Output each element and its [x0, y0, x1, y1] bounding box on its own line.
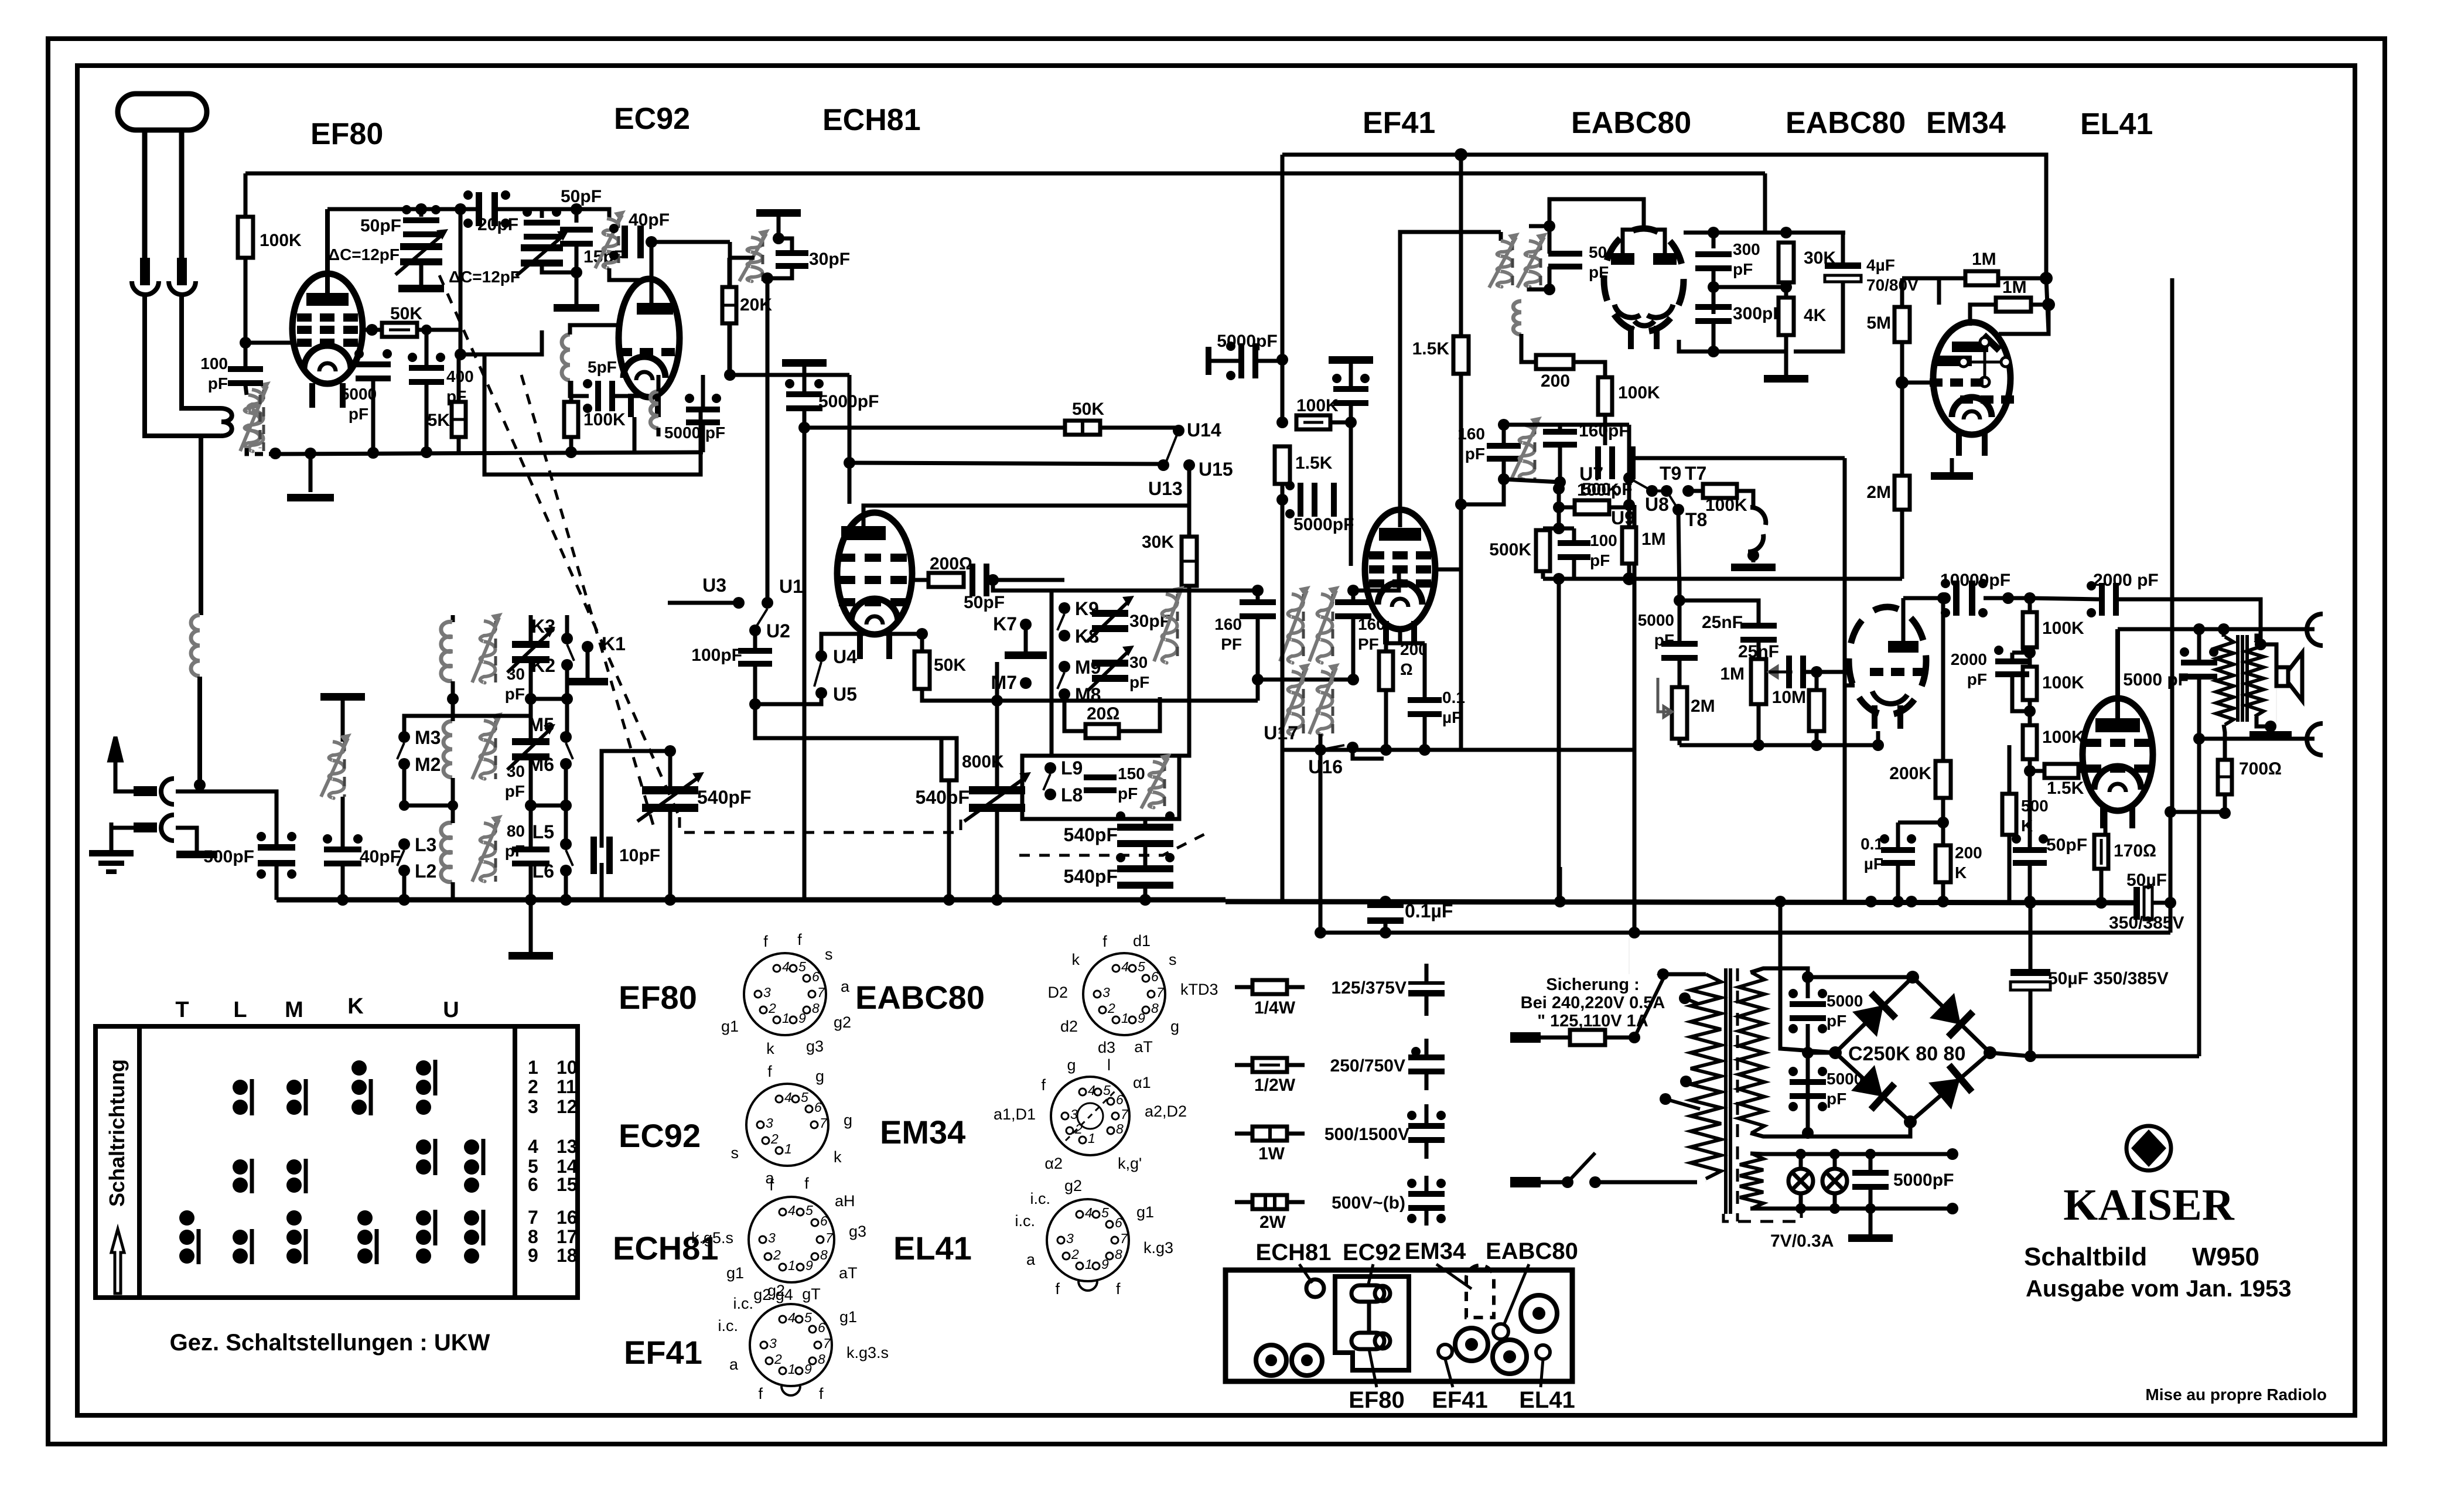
wire — [1595, 1180, 1697, 1185]
contacts U2 bot — [464, 1210, 483, 1264]
svg-text:500/1500V: 500/1500V — [1325, 1125, 1409, 1144]
junction — [1937, 817, 1949, 828]
svg-text:25nF: 25nF — [1738, 642, 1779, 661]
chassis pointer EF41 — [1445, 1359, 1453, 1387]
svg-text:100: 100 — [200, 354, 228, 373]
label 150pF — [1118, 764, 1145, 803]
svg-text:pF: pF — [1827, 1012, 1846, 1030]
svg-text:2000 pF: 2000 pF — [2093, 571, 2159, 590]
wire — [1256, 591, 1260, 600]
legend resistor 1/4W — [1252, 980, 1287, 994]
svg-text:aH: aH — [835, 1192, 855, 1210]
junction — [844, 457, 855, 469]
junction — [1419, 744, 1431, 756]
svg-text:EC92: EC92 — [619, 1117, 701, 1154]
wire ECH81 anode line — [863, 506, 1189, 527]
junction — [2255, 639, 2266, 650]
svg-text:U7: U7 — [1579, 463, 1603, 484]
wire — [1258, 359, 1282, 363]
svg-text:µF: µF — [1442, 708, 1462, 726]
svg-text:6: 6 — [820, 1213, 828, 1228]
wire 20pF node down to 50K out — [459, 209, 463, 354]
label 160pF c — [1457, 425, 1485, 463]
junction — [1829, 1046, 1842, 1059]
svg-text:EABC80: EABC80 — [1786, 106, 1906, 140]
contacts L mid — [233, 1159, 252, 1193]
label 200K b — [1955, 844, 1982, 882]
wire EF41 feed down — [1281, 155, 1285, 360]
svg-text:1: 1 — [1088, 1131, 1095, 1146]
grid EF41 g2 — [1369, 565, 1431, 574]
svg-text:3: 3 — [1102, 985, 1110, 1000]
capacitor terminal in — [1206, 347, 1211, 375]
wire — [1876, 731, 1880, 745]
svg-text:U16: U16 — [1308, 756, 1343, 777]
label 400pF — [446, 367, 474, 405]
diode bridge 4 — [1910, 1053, 1990, 1122]
junction — [773, 233, 784, 244]
svg-text:U4: U4 — [833, 646, 857, 667]
coil antenna secondary — [240, 381, 271, 451]
svg-text:Bei 240,220V 0.5A: Bei 240,220V 0.5A — [1521, 994, 1665, 1012]
wire AGC down to bus — [803, 428, 807, 900]
svg-text:ΔC=12pF: ΔC=12pF — [449, 268, 520, 286]
wire — [2008, 835, 2012, 902]
svg-text:f: f — [1041, 1076, 1046, 1094]
svg-text:5000 pF: 5000 pF — [2123, 670, 2189, 690]
wire — [1386, 641, 1400, 646]
node M2 — [398, 758, 410, 770]
wire — [1686, 1081, 1699, 1087]
svg-text:g3: g3 — [849, 1223, 866, 1240]
wire — [1558, 867, 1562, 902]
switch L5-L6 — [566, 850, 573, 866]
wire 4uF to ground node — [1794, 282, 1843, 351]
resistor 5M — [1894, 307, 1910, 342]
ground 5000pF ECH81 — [782, 359, 827, 367]
resistor 20K — [722, 287, 736, 323]
wire B+ vertical right — [2169, 812, 2173, 933]
legend capacitor 125/375V — [1408, 964, 1445, 1016]
switch U1-U2 — [757, 609, 767, 626]
dashed gang line 3 — [1019, 833, 1207, 855]
capacitor 160pF d — [1543, 429, 1577, 448]
wire — [529, 660, 533, 742]
wire — [529, 615, 533, 644]
svg-text:1: 1 — [1121, 1011, 1129, 1026]
tube EC92 — [619, 279, 680, 397]
wire coil top to grid — [570, 325, 619, 335]
cathode EC92 — [623, 357, 665, 380]
wire — [2008, 745, 2012, 794]
wire down to band coils — [199, 436, 203, 615]
junction — [1786, 351, 1787, 352]
svg-text:9: 9 — [528, 1245, 538, 1266]
svg-text:5: 5 — [801, 1090, 808, 1105]
node L2 — [398, 865, 410, 876]
wire — [1939, 278, 1965, 305]
switch fuse arm — [1634, 979, 1663, 1037]
svg-text:U2: U2 — [766, 620, 790, 641]
svg-text:ECH81: ECH81 — [822, 103, 921, 137]
cathode EF80 — [304, 346, 351, 371]
wire — [1605, 1036, 1634, 1040]
wire — [1757, 704, 1761, 745]
svg-text:300pF: 300pF — [1733, 304, 1784, 323]
wire coil to jack node — [197, 677, 202, 785]
svg-text:5000pF: 5000pF — [1893, 1170, 1954, 1190]
capacitor deltaC 12pF variable — [395, 229, 448, 275]
svg-text:g: g — [815, 1067, 824, 1085]
svg-text:9: 9 — [798, 1011, 806, 1026]
coil RF choke EC92 — [650, 391, 658, 428]
junction — [1795, 1149, 1806, 1159]
grid ECH81 g2 — [839, 576, 907, 584]
svg-text:pF: pF — [208, 374, 228, 392]
switch U4-U5 — [814, 662, 821, 687]
junction — [305, 448, 316, 459]
svg-text:g2: g2 — [767, 1282, 785, 1299]
wire main bottom bus right — [1225, 902, 2133, 903]
diode plate 2 — [1653, 253, 1677, 265]
svg-text:g3: g3 — [806, 1037, 824, 1055]
resistor 30K — [1778, 243, 1794, 282]
wire — [531, 804, 566, 808]
wire — [402, 764, 407, 806]
wire phone out 2 — [2199, 737, 2315, 741]
wire — [1573, 362, 1605, 377]
wire node link — [460, 330, 542, 354]
svg-text:5000: 5000 — [1827, 992, 1863, 1010]
switch U17-U16 — [1320, 745, 1344, 750]
wire — [529, 865, 533, 952]
wire — [1627, 564, 1631, 579]
wire — [1559, 527, 1574, 531]
wire filament rail bottom — [1750, 1207, 1952, 1211]
wire — [1504, 479, 1560, 482]
wire det output vertical — [1843, 458, 1847, 902]
wire — [1900, 383, 1904, 476]
svg-text:aT: aT — [1134, 1038, 1153, 1056]
junction — [1984, 1046, 1996, 1059]
wire — [1833, 1193, 1837, 1209]
wire to AF cathode — [1845, 684, 1855, 688]
coil ECH81 osc — [739, 229, 770, 281]
wire — [309, 453, 313, 492]
contacts M top — [286, 1079, 306, 1115]
junction — [2219, 807, 2231, 819]
coil IFT2 pri — [1489, 233, 1520, 288]
wire — [1541, 1180, 1568, 1185]
svg-text:2M: 2M — [1691, 697, 1715, 716]
coil L band — [1141, 753, 1172, 808]
capacitor 25nF a — [1740, 623, 1777, 643]
wire — [1750, 1133, 1808, 1136]
svg-text:200Ω: 200Ω — [930, 554, 972, 574]
svg-text:1/2W: 1/2W — [1254, 1076, 1296, 1095]
node T7 — [1682, 485, 1694, 497]
junction — [1345, 417, 1357, 428]
svg-text:1.5K: 1.5K — [1412, 339, 1450, 359]
svg-text:g2: g2 — [834, 1013, 851, 1031]
wire — [419, 209, 424, 217]
svg-text:ECH81: ECH81 — [1256, 1240, 1332, 1265]
wire — [2197, 629, 2201, 663]
node osc bottom — [762, 272, 773, 284]
wire coil to bus — [247, 448, 275, 454]
wire — [451, 699, 455, 721]
tube legs EL41 — [2103, 804, 2132, 828]
svg-text:2: 2 — [1071, 1247, 1079, 1262]
anode ECH81 — [841, 526, 886, 540]
wire — [1815, 731, 1819, 745]
svg-text:100K: 100K — [1296, 396, 1339, 415]
junction — [1554, 476, 1566, 488]
junction — [421, 446, 432, 458]
capacitor 30pF osc — [776, 250, 808, 269]
capacitor 30pF K — [1087, 596, 1134, 641]
svg-text:500V~(b): 500V~(b) — [1332, 1193, 1405, 1213]
wire — [920, 634, 924, 651]
capacitor 80pF — [512, 847, 549, 866]
tube EL41 — [2083, 698, 2153, 811]
chassis pointer EL41 — [1541, 1359, 1543, 1387]
wire — [564, 764, 568, 844]
wire — [989, 578, 1064, 582]
wire — [529, 757, 533, 848]
grid EC92 — [619, 348, 675, 356]
node T9 — [1661, 485, 1672, 497]
svg-text:k.g5.s: k.g5.s — [691, 1229, 733, 1247]
svg-text:10: 10 — [557, 1057, 578, 1078]
svg-text:6: 6 — [818, 1320, 825, 1335]
junction — [2193, 733, 2205, 745]
wire — [2031, 303, 2049, 307]
junction — [1554, 896, 1566, 907]
resistor 1.5K EL41 — [2044, 764, 2078, 778]
resistor 50K ECH81 — [914, 651, 930, 689]
svg-text:s: s — [1169, 951, 1177, 968]
junction — [2042, 298, 2055, 311]
svg-text:PF: PF — [1358, 635, 1379, 653]
anode EM34 target — [1952, 342, 1988, 352]
cathode ECH81 — [851, 599, 898, 624]
capacitor 5000pF EC92 — [685, 394, 721, 425]
KAISER logo — [2126, 1126, 2171, 1170]
junction — [1906, 896, 1917, 907]
wire 2000pF to OT — [2119, 599, 2261, 640]
resistor 1.5K screen — [1453, 336, 1469, 374]
svg-text:f: f — [767, 1063, 772, 1080]
junction — [1498, 419, 1510, 431]
chassis socket small left — [1438, 1344, 1452, 1359]
svg-text:4: 4 — [1085, 1205, 1093, 1220]
ground K7 — [1005, 651, 1047, 659]
svg-text:f: f — [1102, 933, 1107, 950]
socket hook left — [132, 281, 159, 295]
junction — [1774, 896, 1786, 907]
coil IFT1 pri2 — [1280, 663, 1310, 735]
wire coil to 5pF — [570, 381, 589, 396]
svg-text:30K: 30K — [1142, 533, 1174, 552]
svg-text:EM34: EM34 — [1926, 106, 2006, 140]
wire screen tap — [1433, 504, 1461, 569]
svg-text:K: K — [1955, 863, 1967, 882]
junction — [1904, 1115, 1917, 1128]
wire — [575, 272, 579, 304]
svg-text:3: 3 — [766, 1115, 773, 1131]
wire — [1143, 819, 1148, 827]
wire 10pF top — [602, 751, 670, 848]
junction — [448, 800, 458, 811]
resistor 200 ohm — [928, 573, 964, 587]
svg-text:1M: 1M — [1641, 530, 1666, 549]
junction — [987, 574, 999, 586]
junction — [943, 894, 955, 906]
tube pinout EABC80 — [1083, 953, 1165, 1035]
grid EF41 g3 — [1369, 551, 1431, 559]
resistor 100K a chain — [2023, 612, 2037, 647]
node after 50K — [421, 325, 432, 335]
junction — [1252, 585, 1264, 596]
capacitor 160pF a — [1240, 599, 1276, 619]
wire — [1558, 446, 1562, 482]
svg-text:pF: pF — [505, 685, 525, 703]
junction — [1780, 227, 1792, 238]
wire — [1459, 504, 1463, 750]
wire — [1558, 425, 1562, 430]
svg-text:pF: pF — [1827, 1090, 1846, 1108]
coil band 2 — [443, 721, 452, 777]
svg-text:D2: D2 — [1047, 984, 1068, 1001]
svg-text:g: g — [1170, 1018, 1179, 1035]
chassis EM34 dashed — [1466, 1265, 1494, 1318]
wire jack2 hook to ground — [176, 828, 197, 851]
switch K3-K2 — [567, 644, 574, 661]
wire — [1603, 415, 1607, 445]
wire EABC80 out — [1684, 231, 1845, 235]
junction — [1553, 501, 1565, 513]
svg-text:µF: µF — [1864, 855, 1883, 873]
svg-text:i.c.: i.c. — [733, 1295, 753, 1312]
svg-text:T8: T8 — [1685, 509, 1707, 530]
junction — [1829, 1149, 1840, 1159]
grid ECH81 g — [839, 554, 907, 562]
wire — [1330, 421, 1351, 425]
capacitor 4uF electrolytic — [1825, 262, 1861, 282]
svg-text:pF: pF — [1465, 445, 1485, 463]
switch M3-M2 — [397, 743, 404, 759]
wire — [668, 808, 673, 900]
resistor 500K det — [1536, 530, 1550, 571]
label 80pF — [505, 822, 525, 860]
svg-text:5K: 5K — [428, 411, 450, 430]
junction — [1347, 674, 1359, 685]
contacts T bot — [179, 1210, 199, 1264]
wire — [1896, 822, 1900, 848]
input plug 2 — [134, 822, 157, 832]
node M8 — [1059, 688, 1070, 700]
wire — [1941, 798, 1945, 845]
wire osc node right — [651, 240, 730, 244]
svg-text:EL41: EL41 — [893, 1230, 972, 1267]
wire — [1841, 233, 1845, 262]
capacitor 160pF c — [1487, 443, 1521, 462]
svg-text:9: 9 — [804, 1361, 812, 1377]
fuse — [1570, 1030, 1605, 1045]
svg-text:EF80: EF80 — [310, 117, 383, 151]
capacitor 500pF input — [257, 832, 296, 879]
wire main bottom bus left — [276, 897, 1225, 903]
wire — [2012, 675, 2030, 711]
tube pinout EM34 — [1051, 1077, 1129, 1155]
wire 25nF link — [1679, 600, 1759, 624]
capacitor 5000pF tone — [2180, 647, 2218, 680]
svg-text:Mise au propre Radiolo: Mise au propre Radiolo — [2145, 1385, 2327, 1404]
svg-text:12: 12 — [557, 1096, 578, 1117]
capacitor 50uF b electrolytic — [2010, 969, 2050, 990]
wire U15 down — [1187, 465, 1192, 537]
svg-text:200K: 200K — [1889, 764, 1931, 783]
svg-text:2000: 2000 — [1951, 650, 1987, 668]
wire U4 to cathode node — [821, 634, 922, 656]
svg-text:a: a — [841, 978, 850, 995]
headphone hook out2 — [2307, 723, 2323, 755]
junction — [1865, 1149, 1876, 1159]
svg-text:f: f — [769, 1176, 774, 1194]
wire B+ riser — [2197, 739, 2201, 1056]
wire — [1425, 1176, 1429, 1194]
switch direction arrow — [111, 1229, 124, 1293]
wire screen feed — [1459, 155, 1463, 336]
winding OT secondary — [2246, 640, 2264, 716]
wire — [425, 330, 429, 367]
resistor 2M EM34 — [1894, 476, 1910, 510]
svg-text:1.5K: 1.5K — [2047, 779, 2084, 798]
resistor 800K — [941, 738, 957, 780]
svg-text:7: 7 — [825, 1230, 834, 1245]
junction — [2095, 897, 2107, 909]
svg-text:500K: 500K — [1489, 540, 1531, 559]
svg-text:EF41: EF41 — [1363, 106, 1435, 140]
grid EABC80 AF — [1870, 668, 1926, 676]
svg-text:3: 3 — [769, 1336, 777, 1351]
svg-text:8: 8 — [1151, 1001, 1159, 1016]
capacitor 540pF IF 3 — [1116, 811, 1175, 847]
cathode EABC80 AF — [1872, 691, 1907, 704]
junction — [1802, 1047, 1814, 1059]
node K3 — [561, 633, 573, 644]
label 5000pF EF80 — [340, 385, 377, 423]
resistor 500K fb — [2002, 794, 2016, 835]
legend resistor 2W — [1252, 1195, 1287, 1209]
node U7 — [1623, 472, 1635, 484]
wire — [1349, 404, 1353, 566]
legend capacitor 250/750V — [1408, 1054, 1445, 1074]
wire — [1678, 659, 1682, 687]
svg-text:1M: 1M — [2002, 278, 2027, 297]
node U15 — [1183, 459, 1195, 471]
resistor 30K IF — [1182, 537, 1197, 586]
svg-text:16: 16 — [557, 1207, 578, 1228]
diode bridge 3 — [1835, 1053, 1910, 1122]
wire 200K feed — [1941, 598, 1945, 761]
wire IFT2 to EABC80 — [1549, 199, 1644, 230]
label 5000pF ratio — [1638, 611, 1674, 649]
capacitor 5000pF EF41 gnd — [1332, 374, 1370, 406]
svg-text:1: 1 — [788, 1361, 796, 1377]
svg-text:8: 8 — [818, 1351, 825, 1367]
